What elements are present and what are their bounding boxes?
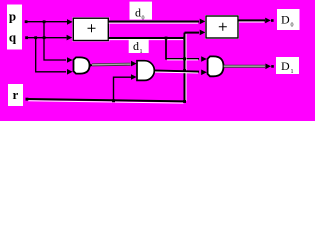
junction r to gate B branch: [112, 99, 115, 102]
wire into XOR2 input 2: [185, 32, 200, 34]
input label box r: [8, 84, 23, 106]
svg-text:p: p: [9, 9, 16, 24]
wire q branch vertical to gate A: [36, 38, 66, 72]
junction p branch: [43, 20, 46, 23]
gate B (AND): [137, 61, 154, 81]
wire p horizontal: [26, 21, 67, 23]
gray wire gate C to D1: [224, 65, 265, 68]
background canvas: [0, 0, 315, 121]
gate A (AND p,q): [74, 57, 90, 73]
gate C output nub: [223, 64, 228, 68]
node start p: [25, 20, 28, 23]
wire d1 (U1 lower out): [109, 37, 185, 39]
wire r horizontal: [27, 99, 185, 101]
input label box p/q: [7, 5, 22, 50]
arrow into gate B input 2: [131, 74, 137, 80]
svg-text:D: D: [281, 59, 290, 73]
plus sign U1: [88, 24, 96, 32]
wire XOR2 output to D0: [238, 19, 265, 21]
label box d0: [130, 2, 153, 20]
arrow into D0: [265, 18, 271, 24]
plus sign U2: [219, 23, 227, 31]
arrow into XOR2 input 2: [200, 30, 206, 36]
junction V2 x gateB out: [183, 69, 186, 72]
output label box D1: [276, 57, 299, 74]
tip dot D1: [271, 65, 274, 68]
junction V2 x gateC line: [183, 57, 186, 60]
svg-text:r: r: [13, 87, 19, 102]
crossing dot p-vert over q wire: [43, 36, 46, 39]
svg-text:d: d: [133, 39, 139, 53]
svg-text:d: d: [135, 6, 141, 20]
wire q horizontal: [27, 37, 67, 39]
node start q: [25, 36, 28, 39]
tip dot D0: [271, 19, 274, 22]
node start r: [26, 98, 29, 101]
gray wire gate A to gate B: [92, 63, 131, 67]
half-adder box U2 (+): [205, 15, 239, 39]
arrow into XOR1 input 2: [67, 35, 73, 41]
wire r branch up to gate B input 2: [114, 77, 132, 101]
svg-text:1: 1: [291, 69, 294, 75]
arrow into D1: [265, 64, 271, 70]
svg-text:0: 0: [291, 23, 294, 29]
label box d1: [129, 38, 149, 54]
corner r to V2: [183, 100, 186, 103]
arrow into XOR1 input 1: [67, 19, 73, 25]
output label box D0: [277, 9, 300, 30]
svg-text:D: D: [281, 13, 290, 27]
arrow into XOR2 input 1: [200, 19, 206, 25]
arrow into gate A input 1: [67, 57, 73, 63]
wire gate B output to gate C input 2: [154, 71, 199, 72]
arrow into gate C input 1: [201, 56, 207, 62]
arrow into gate A input 2: [67, 69, 73, 75]
junction q branch: [34, 36, 37, 39]
junction d1 end at V2: [183, 37, 186, 40]
junction d1 to V1: [165, 37, 168, 40]
arrow into gate C input 2: [201, 70, 207, 76]
gate C (OR to D1): [208, 56, 224, 76]
wire V1 vertical down to gate C input 1: [166, 38, 199, 59]
wire V2 vertical (r up to XOR2 input 2): [184, 33, 186, 102]
wire d0 (U1 out to U2 in1): [109, 21, 199, 23]
wire p branch vertical to gate A: [44, 22, 66, 60]
svg-text:q: q: [9, 30, 17, 45]
half-adder box U1 (+): [72, 17, 109, 41]
gate A output nub: [89, 63, 94, 67]
arrow into gate B input 1: [131, 61, 137, 67]
svg-text:1: 1: [140, 49, 143, 55]
